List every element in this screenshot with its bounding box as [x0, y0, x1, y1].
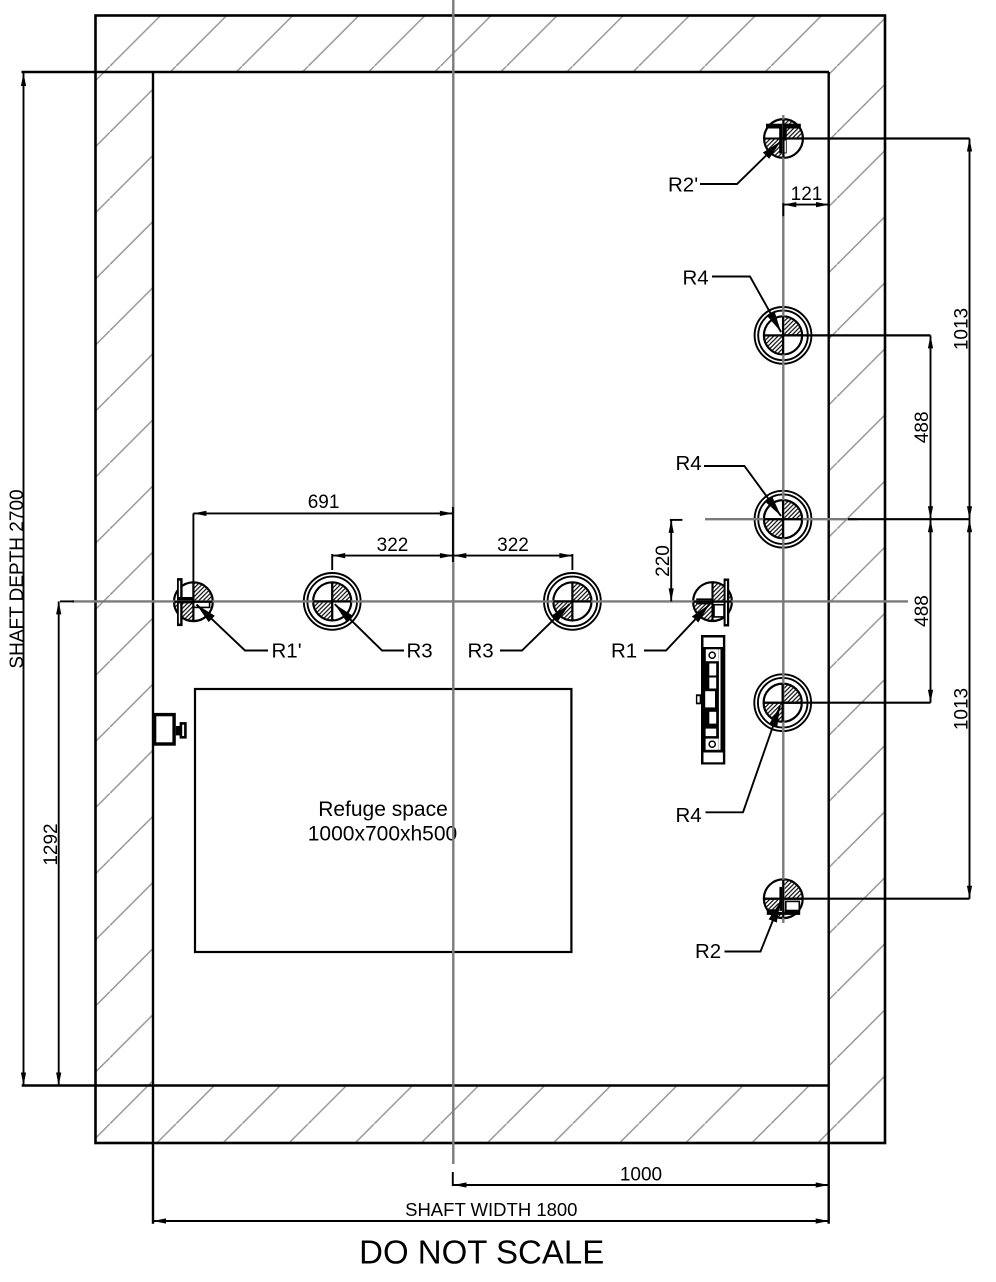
dimension SHAFT WIDTH 1800 — [153, 1220, 829, 1222]
outer wall outline — [96, 16, 886, 1144]
horizontal centerline main row — [72, 600, 908, 602]
svg-text:R4: R4 — [676, 452, 702, 475]
guide rail profile at R2 — [767, 886, 800, 914]
svg-text:1013: 1013 — [952, 308, 973, 350]
leader R3 right — [500, 604, 570, 650]
svg-text:488: 488 — [912, 595, 933, 627]
dimension 322 right — [453, 555, 572, 557]
svg-text:SHAFT DEPTH 2700: SHAFT DEPTH 2700 — [7, 489, 28, 668]
vertical centerline through car — [452, 0, 454, 1164]
rail bracket assembly below R1 — [696, 635, 725, 765]
svg-text:1013: 1013 — [952, 688, 973, 730]
svg-text:Refuge space: Refuge space — [318, 798, 448, 821]
dimension 121 — [783, 204, 829, 206]
svg-text:R3: R3 — [407, 640, 433, 663]
dimension 220 — [670, 520, 672, 602]
svg-text:R2': R2' — [668, 174, 698, 197]
roller guide R3 right — [544, 573, 601, 630]
guide rail profile at R1' — [177, 578, 210, 626]
dimension 1013 upper — [969, 139, 971, 520]
guide rail profile at R1 — [696, 579, 729, 627]
horizontal centerline R4 middle row — [705, 518, 764, 520]
dimension 488 lower — [930, 519, 932, 703]
leader R2' — [700, 141, 781, 184]
leader R4 top — [712, 277, 781, 333]
inner wall right edge — [828, 72, 830, 1224]
svg-text:R4: R4 — [676, 804, 702, 827]
leader R4 middle — [704, 466, 781, 516]
quadrant cross overlays on roller circles — [174, 120, 802, 918]
svg-text:1000: 1000 — [620, 1165, 662, 1186]
row line R4 top — [783, 334, 931, 336]
roller guide R4 middle — [755, 491, 812, 548]
inner wall left edge — [152, 72, 154, 1224]
roller guide R4 top — [755, 307, 812, 364]
row line R2 — [783, 898, 969, 900]
dimension 1013 lower — [969, 519, 971, 899]
svg-text:322: 322 — [377, 535, 409, 556]
inner wall bottom edge — [22, 1084, 829, 1086]
dimension 488 upper — [930, 335, 932, 519]
row line R4 middle — [848, 518, 970, 520]
svg-text:SHAFT WIDTH 1800: SHAFT WIDTH 1800 — [405, 1199, 577, 1220]
door lock detail on left wall — [155, 715, 186, 744]
leader R4 bottom — [706, 706, 781, 812]
roller guide R3 left — [304, 573, 361, 630]
roller guide R1 circle — [693, 582, 732, 621]
svg-text:691: 691 — [308, 492, 340, 513]
svg-text:1292: 1292 — [41, 823, 62, 865]
svg-text:R2: R2 — [695, 940, 721, 963]
svg-text:DO NOT SCALE: DO NOT SCALE — [359, 1234, 604, 1271]
leader R3 left — [335, 604, 404, 650]
guide rail profile at R2' — [766, 124, 801, 154]
roller guide R2' circle — [764, 119, 803, 158]
svg-text:R3: R3 — [468, 640, 494, 663]
row line R2' — [784, 137, 970, 139]
svg-text:1000x700xh500: 1000x700xh500 — [308, 823, 457, 846]
leader R1' — [197, 605, 269, 651]
svg-text:322: 322 — [497, 535, 529, 556]
dimension 1292 — [58, 601, 60, 1085]
leader R2 — [725, 902, 781, 952]
leader R1 — [644, 604, 710, 650]
svg-text:488: 488 — [912, 411, 933, 443]
roller guide R1' circle — [174, 582, 213, 621]
dimension 1000 — [454, 1184, 829, 1186]
shaft wall hatched ring — [96, 16, 886, 1144]
refuge space rectangle — [195, 689, 571, 952]
row line R4 bottom — [783, 702, 931, 704]
svg-text:R1: R1 — [611, 640, 637, 663]
inner wall top edge — [22, 71, 830, 73]
roller guide R2 circle — [764, 879, 803, 918]
dimension SHAFT DEPTH 2700 — [23, 73, 25, 1086]
svg-text:220: 220 — [653, 545, 674, 577]
vertical centerline through rollers — [782, 115, 784, 923]
dimension 322 left — [332, 555, 453, 557]
svg-text:R1': R1' — [272, 640, 302, 663]
svg-text:121: 121 — [791, 184, 823, 205]
svg-text:R4: R4 — [683, 267, 709, 290]
roller guide R4 bottom — [754, 674, 811, 731]
dimension 691 — [193, 512, 453, 514]
